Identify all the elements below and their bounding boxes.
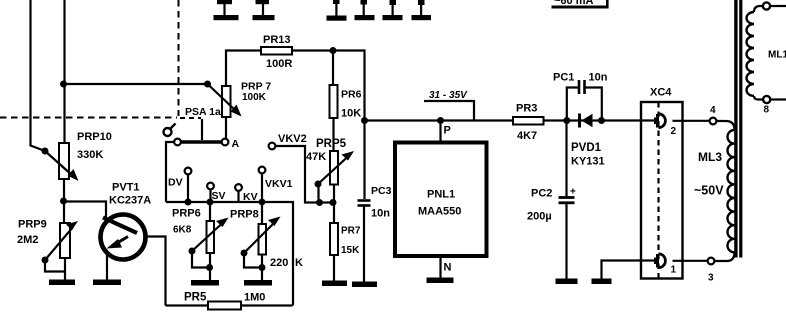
dashed boundary horizontal [0, 117, 177, 119]
inductor ML3 winding [728, 130, 735, 252]
wire contact 1 to terminal 3 [673, 260, 708, 262]
label leader 31-35V [424, 101, 474, 121]
switch PSA1a contact bar [181, 140, 222, 144]
svg-text:~50V: ~50V [694, 184, 724, 198]
svg-text:ML3: ML3 [698, 150, 722, 164]
wire PC3 to ground [363, 206, 365, 282]
wire band rail [166, 202, 293, 306]
svg-text:VKV2: VKV2 [278, 133, 307, 145]
wire terminal 3 to ML3 bottom [714, 252, 734, 261]
resistor PR13 100R body [261, 47, 292, 55]
svg-text:ML1: ML1 [768, 50, 786, 61]
svg-text:MAA550: MAA550 [418, 206, 461, 218]
wire PRP6 wiper diagonal [192, 224, 222, 252]
ground under N [427, 278, 454, 284]
ground top G6 [412, 15, 432, 20]
svg-text:100R: 100R [266, 58, 292, 70]
terminal ML1 bottom (8) [763, 96, 770, 103]
ground top G2 [253, 15, 275, 20]
contact DV [185, 168, 192, 175]
svg-text:10n: 10n [371, 208, 390, 220]
resistor PR5 1M0 body [208, 302, 241, 310]
connector XC4 box [641, 102, 683, 279]
wire PRP7 bottom to contact A [225, 117, 227, 139]
svg-text:10K: 10K [341, 108, 361, 120]
node PC1 left junction [563, 117, 570, 124]
wire PRP8 wiper diagonal [244, 223, 274, 253]
svg-text:PR3: PR3 [516, 103, 537, 115]
resistor PRP8 220K body [259, 224, 267, 255]
svg-text:4: 4 [710, 105, 716, 116]
terminal 3 [708, 258, 715, 265]
ground top G3 [327, 16, 347, 21]
svg-text:PC3: PC3 [371, 185, 392, 197]
wire PRP10 to PRP9 [63, 179, 65, 223]
svg-text:31 - 35V: 31 - 35V [429, 90, 468, 101]
svg-text:PR7: PR7 [341, 226, 361, 237]
connector XC4 contact 1 [656, 254, 659, 268]
ground under PVT1 [93, 280, 121, 286]
wire PR3 to PVD1 [544, 119, 658, 121]
IC PNL1 MAA550 box [395, 143, 487, 257]
connector XC4 dashed axis [657, 102, 659, 279]
wire PRP8 top [261, 202, 263, 224]
ground under PC3 [352, 282, 377, 288]
svg-text:P: P [444, 125, 451, 137]
svg-text:2: 2 [671, 126, 677, 137]
wire PRP5 bottom to PR7 [333, 185, 335, 224]
svg-text:2M2: 2M2 [17, 234, 38, 246]
contact VKV1 [259, 167, 266, 174]
svg-text:VKV1: VKV1 [265, 178, 293, 190]
dashed link to switch wiper [180, 117, 201, 119]
wire contact A feed [166, 142, 174, 202]
wire PVT1 collector [146, 237, 166, 306]
wire PRP9 wiper tie [45, 262, 65, 272]
svg-text:10n: 10n [589, 72, 608, 84]
svg-text:PRP6: PRP6 [172, 208, 201, 220]
svg-text:15K: 15K [341, 245, 360, 256]
wire horizontal to PRP7 wiper [64, 83, 208, 85]
wire PR6 to PRP5 [332, 118, 334, 151]
resistor PR3 4K7 body [513, 117, 544, 125]
ground for XC4 return [592, 279, 612, 285]
wire PVT1 emitter to ground [106, 255, 108, 280]
ground under PRP6 [191, 280, 219, 286]
svg-text:100K: 100K [242, 92, 267, 103]
ground under PRP9 [49, 280, 75, 286]
svg-text:~60 mA: ~60 mA [554, 0, 593, 7]
inductor ML1 winding [747, 12, 754, 96]
wire PRP6 top [209, 202, 211, 221]
capacitor PC3 10n plates [358, 199, 371, 202]
wire ground to XC4 contact 1 [602, 261, 658, 279]
meter box ~60 mA (clipped) [552, 6, 609, 9]
wire N pin [439, 256, 441, 278]
capacitor PC1 plates [578, 80, 581, 94]
contact VKV2 [269, 143, 276, 150]
contact SV [207, 183, 214, 190]
resistor PRP10 330K body [59, 143, 69, 179]
switch PSA1a rotor mark [164, 128, 172, 136]
wire PRP6 to ground [209, 253, 211, 281]
resistor PRP9 2M2 body [60, 223, 70, 258]
svg-text:PC2: PC2 [531, 188, 552, 200]
resistor PRP7 100K body [222, 86, 231, 117]
svg-text:SV: SV [212, 190, 226, 202]
wire PC3 top [363, 121, 365, 200]
wire P pin [439, 121, 441, 143]
wire PRP7 top to PR13 left [226, 51, 261, 87]
wire bottom loop [166, 304, 209, 306]
switch PSA1a wiper stem [201, 119, 203, 140]
wire PR7 to ground [333, 255, 335, 281]
svg-text:1: 1 [671, 265, 677, 276]
transformer core [734, 0, 737, 258]
terminal ML1 top [763, 2, 770, 9]
svg-text:PVD1: PVD1 [571, 142, 602, 154]
wire PRP5 wiper tie [317, 184, 319, 203]
node PRP10/PRP9 junction [60, 198, 67, 205]
ground top G4 [355, 15, 375, 20]
capacitor PC2 200u electrolytic [565, 121, 567, 197]
wire PRP5 wiper diagonal [318, 157, 348, 185]
transistor PVT1 KC237A [101, 215, 146, 260]
diode PVD1 KY131 [578, 114, 581, 128]
wire PRP6 wiper tie [192, 253, 210, 268]
resistor PRP5 47K body [330, 151, 338, 185]
svg-text:PSA 1a: PSA 1a [185, 106, 221, 118]
svg-text:KY131: KY131 [571, 156, 605, 168]
svg-text:DV: DV [168, 177, 183, 189]
wire PR13 right [292, 51, 365, 121]
wire PRP7 wiper diagonal [208, 84, 236, 110]
wire supply rail [365, 119, 514, 121]
svg-text:6K8: 6K8 [173, 225, 192, 236]
terminal 4 [710, 118, 717, 125]
wire main left vertical [63, 0, 65, 143]
svg-text:PRP10: PRP10 [77, 131, 112, 143]
resistor PR6 10K body [330, 85, 338, 118]
ground top G5 [383, 15, 403, 20]
dashed boundary vertical [178, 0, 180, 116]
svg-text:PNL1: PNL1 [427, 189, 455, 201]
svg-text:4K7: 4K7 [517, 130, 537, 142]
wire base from divider to PVT1 [64, 202, 107, 220]
node contact A [222, 139, 229, 146]
svg-text:PRP9: PRP9 [18, 219, 47, 231]
svg-text:PRP8: PRP8 [230, 209, 259, 221]
wire ML1 bottom terminal [754, 96, 763, 100]
svg-text:KV: KV [243, 191, 258, 203]
svg-text:PRP 7: PRP 7 [241, 81, 271, 93]
svg-text:8: 8 [764, 105, 770, 116]
resistor PR7 15K body [330, 223, 338, 255]
svg-text:A: A [232, 138, 240, 150]
ground under PC2 [556, 279, 578, 285]
connector XC4 contact 2 [656, 114, 659, 128]
node junction at top horizontal [60, 81, 67, 88]
svg-text:1M0: 1M0 [244, 292, 265, 304]
node P junction [437, 117, 444, 124]
wire PRP10 wiper diagonal [45, 151, 73, 176]
svg-text:200µ: 200µ [527, 211, 552, 223]
svg-text:220: 220 [270, 257, 288, 269]
wire ML1 top terminal [754, 6, 763, 12]
wire PR6 top [332, 51, 334, 86]
node PRP7 wiper junction [204, 81, 211, 88]
svg-text:PVT1: PVT1 [112, 182, 140, 194]
wire left vertical feed to PRP10 wiper [31, 0, 46, 151]
svg-text:PR5: PR5 [184, 292, 207, 304]
wire terminal 4 to ML3 top [716, 121, 734, 130]
svg-text:330K: 330K [77, 149, 103, 161]
ground top G1 [214, 15, 239, 20]
svg-text:N: N [444, 262, 452, 274]
svg-text:PR6: PR6 [341, 89, 362, 101]
svg-text:+: + [570, 187, 576, 198]
svg-text:PC1: PC1 [553, 72, 574, 84]
ground under PRP8 [244, 280, 272, 286]
node PR13/PR6 junction [330, 47, 337, 54]
node supply/PC3 junction [361, 117, 368, 124]
svg-text:XC4: XC4 [650, 87, 672, 99]
svg-text:K: K [295, 257, 303, 269]
wire VKV2 branch [276, 146, 334, 203]
wire PRP8 wiper tie [244, 255, 262, 268]
svg-text:3: 3 [708, 273, 714, 284]
contact KV [235, 184, 242, 191]
wire PRP9 wiper diagonal [45, 227, 73, 260]
resistor PRP6 6K8 body [207, 221, 215, 253]
wire PRP9 to ground [64, 258, 66, 280]
wire contact 2 to terminal 4 [673, 120, 710, 122]
svg-text:PR13: PR13 [263, 34, 291, 46]
ground under PR7 [322, 281, 347, 287]
svg-text:PRP5: PRP5 [316, 138, 347, 150]
wire PRP8 to ground [261, 255, 263, 281]
svg-text:KC237A: KC237A [109, 195, 151, 207]
svg-text:47K: 47K [306, 151, 326, 163]
node PRP5 bottom rail junctions [316, 199, 323, 206]
capacitor PC1 10n bypass loop [567, 88, 578, 121]
node PC1 right junction [598, 117, 605, 124]
